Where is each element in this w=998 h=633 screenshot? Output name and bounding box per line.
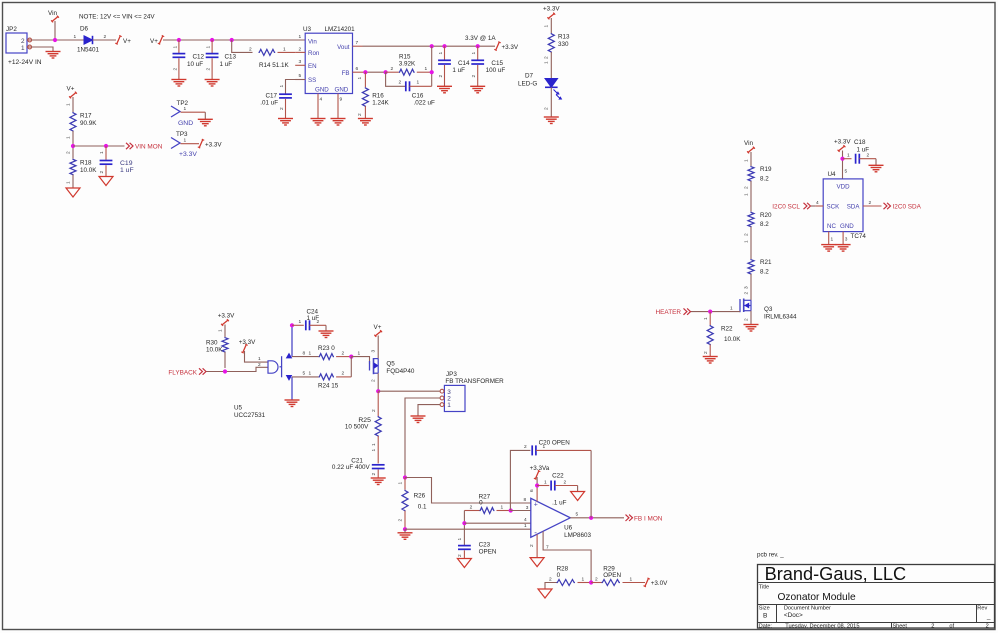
ground — [836, 244, 851, 246]
svg-text:2: 2 — [529, 544, 535, 547]
power flag +3.3V — [496, 42, 500, 50]
svg-text:R20: R20 — [760, 212, 772, 219]
svg-text:SCK: SCK — [827, 204, 841, 211]
wire — [405, 398, 440, 478]
svg-text:5: 5 — [303, 371, 306, 377]
svg-text:1: 1 — [283, 46, 286, 52]
svg-text:D6: D6 — [80, 26, 89, 33]
wire — [207, 367, 269, 371]
svg-text:1: 1 — [398, 482, 404, 485]
svg-text:2: 2 — [279, 107, 285, 110]
svg-text:0: 0 — [479, 500, 483, 507]
svg-text:TP2: TP2 — [177, 100, 189, 107]
svg-text:FB I MON: FB I MON — [634, 515, 663, 522]
svg-text:1: 1 — [743, 240, 749, 243]
svg-text:2: 2 — [457, 554, 463, 557]
resistor R20 — [748, 212, 754, 228]
wire — [405, 528, 531, 530]
svg-text:C23: C23 — [479, 541, 491, 548]
svg-text:1: 1 — [309, 371, 312, 377]
node — [210, 38, 214, 42]
ground — [331, 118, 346, 120]
wire — [32, 47, 54, 52]
net flag VIN MON — [126, 143, 129, 149]
node — [430, 70, 434, 74]
svg-text:0: 0 — [557, 572, 561, 579]
node — [708, 310, 712, 314]
svg-text:8: 8 — [524, 497, 527, 503]
svg-text:R23 0: R23 0 — [318, 345, 335, 352]
pin 6 — [536, 486, 538, 502]
svg-text:10 uF: 10 uF — [187, 61, 203, 68]
capacitor C24 — [292, 324, 304, 326]
svg-text:2: 2 — [931, 624, 934, 630]
svg-text:1: 1 — [358, 350, 361, 356]
svg-text:5: 5 — [299, 73, 302, 79]
svg-text:3: 3 — [299, 59, 302, 65]
svg-text:R18: R18 — [80, 160, 92, 167]
node Vin junction — [53, 38, 57, 42]
svg-text:1: 1 — [66, 181, 72, 184]
svg-text:1 uF: 1 uF — [307, 315, 320, 322]
IC U4 TC74 — [823, 179, 863, 232]
svg-text:2: 2 — [544, 56, 550, 59]
svg-text:C17: C17 — [266, 93, 278, 100]
svg-text:1 uF: 1 uF — [452, 67, 465, 74]
svg-text:1: 1 — [184, 106, 187, 112]
svg-text:2: 2 — [743, 292, 749, 295]
svg-text:2: 2 — [399, 80, 402, 86]
svg-text:1: 1 — [173, 46, 179, 49]
wire — [232, 40, 253, 52]
svg-text:I2C0 SDA: I2C0 SDA — [893, 203, 922, 210]
wire — [875, 159, 877, 166]
node — [840, 157, 844, 161]
svg-text:U3: U3 — [303, 26, 312, 33]
svg-text:1 uF: 1 uF — [120, 167, 134, 174]
node — [442, 44, 446, 48]
ground — [544, 116, 559, 118]
svg-text:pcb rev. _: pcb rev. _ — [757, 552, 784, 559]
svg-text:C12: C12 — [193, 54, 205, 61]
svg-text:Q3: Q3 — [764, 306, 773, 313]
testpoint TP2 — [171, 106, 180, 117]
wire — [72, 175, 74, 188]
net flag HEATER — [684, 308, 687, 314]
svg-text:1: 1 — [425, 66, 428, 72]
capacitor C21 — [372, 464, 385, 466]
power flag V+ — [117, 36, 121, 44]
svg-text:U5: U5 — [234, 405, 243, 412]
svg-text:1: 1 — [299, 34, 302, 40]
ground — [371, 477, 386, 479]
svg-text:Vout: Vout — [337, 44, 350, 51]
node — [104, 144, 108, 148]
wire — [224, 352, 226, 368]
svg-text:10 500V: 10 500V — [345, 424, 369, 431]
svg-text:2: 2 — [470, 504, 473, 510]
wire — [93, 39, 117, 41]
svg-text:2: 2 — [258, 362, 261, 368]
svg-text:B: B — [763, 613, 768, 620]
ground — [319, 330, 334, 332]
svg-text:1: 1 — [524, 523, 527, 529]
node — [535, 483, 539, 487]
svg-text:6: 6 — [356, 66, 359, 72]
svg-text:R13: R13 — [558, 34, 570, 41]
svg-text:8.2: 8.2 — [760, 175, 769, 182]
svg-text:4: 4 — [320, 97, 323, 103]
wire FB — [365, 71, 385, 73]
svg-text:100 uF: 100 uF — [486, 67, 506, 74]
svg-text:1: 1 — [703, 317, 709, 320]
svg-text:1: 1 — [457, 538, 463, 541]
svg-text:2: 2 — [99, 171, 105, 174]
svg-text:NC: NC — [827, 223, 836, 230]
svg-text:FB TRANSFORMER: FB TRANSFORMER — [445, 378, 504, 385]
net flag FB I MON — [626, 515, 629, 521]
svg-text:330: 330 — [558, 41, 569, 48]
wire — [418, 405, 440, 416]
svg-text:8.2: 8.2 — [760, 221, 769, 228]
svg-text:FB: FB — [342, 70, 350, 77]
svg-text:7: 7 — [356, 40, 359, 46]
svg-text:2: 2 — [524, 444, 527, 450]
svg-text:D7: D7 — [525, 73, 534, 80]
svg-text:2: 2 — [342, 371, 345, 377]
ground — [66, 188, 80, 197]
wire — [750, 227, 752, 259]
svg-text:+3.3V: +3.3V — [218, 313, 235, 320]
svg-text:UCC27531: UCC27531 — [234, 412, 266, 419]
svg-text:10.0K: 10.0K — [206, 347, 223, 354]
svg-text:1: 1 — [743, 159, 749, 162]
svg-text:+3.3V: +3.3V — [834, 139, 851, 146]
connector JP3 — [444, 385, 465, 411]
svg-text:8.2: 8.2 — [760, 268, 769, 275]
svg-text:.022 uF: .022 uF — [414, 100, 436, 107]
power flag +3.0V — [645, 578, 649, 586]
connector JP2 — [6, 33, 27, 53]
svg-text:LMP8603: LMP8603 — [564, 532, 591, 539]
svg-text:R30: R30 — [206, 339, 218, 346]
ground — [821, 244, 836, 246]
svg-text:V+: V+ — [123, 38, 131, 45]
svg-text:1: 1 — [471, 52, 477, 55]
ground — [457, 559, 471, 568]
node — [177, 38, 181, 42]
ground — [311, 118, 326, 120]
svg-text:2: 2 — [703, 351, 709, 354]
svg-text:2: 2 — [595, 576, 598, 582]
wire — [550, 18, 552, 33]
svg-text:LED-G: LED-G — [518, 81, 537, 88]
svg-text:R19: R19 — [760, 166, 772, 173]
resistor R25 — [377, 391, 379, 416]
svg-text:1 uF: 1 uF — [220, 61, 233, 68]
svg-text:GND: GND — [335, 87, 349, 94]
wire — [351, 357, 369, 364]
node — [403, 527, 407, 531]
wire — [54, 21, 56, 40]
svg-text:R14 51.1K: R14 51.1K — [259, 62, 290, 69]
capacitor C22 — [537, 485, 549, 487]
svg-text:1: 1 — [544, 479, 547, 485]
svg-text:2: 2 — [371, 473, 377, 476]
svg-text:OPEN: OPEN — [479, 549, 497, 556]
node — [363, 70, 367, 74]
svg-text:1.24K: 1.24K — [372, 100, 389, 107]
svg-text:_: _ — [986, 613, 991, 620]
svg-text:1: 1 — [831, 237, 834, 243]
svg-text:2: 2 — [371, 409, 377, 412]
capacitor C16 — [386, 72, 406, 86]
node — [349, 355, 353, 359]
wire — [245, 351, 269, 362]
LED D7 — [545, 79, 558, 88]
svg-text:Date:: Date: — [759, 624, 773, 630]
wire — [377, 336, 379, 359]
svg-text:Ozonator Module: Ozonator Module — [778, 592, 856, 603]
svg-text:GND: GND — [315, 87, 329, 94]
svg-text:1: 1 — [371, 449, 377, 452]
svg-text:5: 5 — [576, 512, 579, 518]
svg-text:3: 3 — [371, 350, 377, 353]
diode D6 — [84, 36, 93, 44]
pin 7 — [543, 531, 591, 582]
svg-text:1: 1 — [184, 138, 187, 144]
wire — [463, 511, 465, 546]
svg-text:GND: GND — [178, 120, 193, 127]
svg-text:1N5401: 1N5401 — [77, 47, 100, 54]
ground — [358, 118, 373, 120]
svg-text:Q5: Q5 — [386, 360, 395, 367]
svg-text:SS: SS — [308, 77, 316, 84]
svg-text:TC74: TC74 — [851, 233, 867, 240]
op-amp U6 LMP8603 — [531, 498, 571, 537]
wire — [431, 46, 433, 86]
node — [223, 369, 227, 373]
svg-text:I2C0 SCL: I2C0 SCL — [772, 203, 800, 210]
svg-text:+12-24V IN: +12-24V IN — [8, 59, 42, 66]
wire — [842, 151, 844, 179]
ground — [46, 51, 61, 53]
svg-text:LMZ14201: LMZ14201 — [325, 26, 356, 33]
svg-text:VDD: VDD — [837, 184, 851, 191]
ground — [171, 79, 186, 81]
ground — [703, 356, 718, 358]
wire — [750, 311, 752, 325]
svg-text:.1 uF: .1 uF — [552, 499, 567, 506]
svg-text:JP3: JP3 — [446, 371, 457, 378]
testpoint TP3 — [171, 138, 180, 149]
svg-text:Ron: Ron — [308, 50, 320, 57]
svg-text:3.92K: 3.92K — [399, 60, 416, 67]
svg-text:+3.3V: +3.3V — [205, 141, 222, 148]
wire V+ bus — [163, 39, 305, 41]
svg-text:2: 2 — [66, 151, 72, 154]
svg-text:C13: C13 — [225, 54, 237, 61]
wire — [377, 373, 379, 391]
ground — [411, 415, 426, 417]
svg-text:1: 1 — [438, 52, 444, 55]
svg-text:+3.3V: +3.3V — [502, 44, 519, 51]
wire — [224, 325, 226, 338]
svg-text:2: 2 — [104, 34, 107, 40]
svg-text:2: 2 — [342, 350, 345, 356]
svg-text:2: 2 — [869, 200, 872, 206]
wire — [550, 52, 552, 79]
wire — [750, 152, 752, 166]
wire — [72, 131, 74, 159]
svg-text:C19: C19 — [120, 160, 133, 167]
svg-text:1: 1 — [309, 350, 312, 356]
svg-text:1: 1 — [357, 77, 363, 80]
ground — [530, 558, 544, 567]
svg-text:1: 1 — [299, 319, 302, 325]
svg-text:2: 2 — [438, 75, 444, 78]
svg-text:FLYBACK: FLYBACK — [168, 369, 197, 376]
svg-text:2: 2 — [743, 233, 749, 236]
svg-text:1: 1 — [847, 153, 850, 159]
ground — [571, 492, 585, 501]
svg-text:1: 1 — [730, 305, 733, 311]
svg-text:5: 5 — [845, 169, 848, 175]
svg-text:1: 1 — [630, 576, 633, 582]
svg-text:3.3V @ 1A: 3.3V @ 1A — [465, 35, 496, 42]
svg-text:1: 1 — [258, 356, 261, 362]
ground — [285, 399, 300, 401]
svg-text:9: 9 — [340, 97, 343, 103]
svg-text:3: 3 — [743, 286, 749, 289]
wire — [464, 522, 530, 524]
ground — [99, 177, 113, 186]
ground — [470, 85, 485, 87]
svg-text:SDA: SDA — [847, 204, 861, 211]
svg-text:1: 1 — [417, 80, 420, 86]
svg-text:TP3: TP3 — [176, 131, 188, 138]
svg-text:Vin: Vin — [744, 140, 753, 147]
svg-text:U6: U6 — [564, 524, 573, 531]
IC U3 LMZ14201 — [305, 33, 352, 93]
wire — [32, 39, 84, 41]
svg-text:1: 1 — [66, 136, 72, 139]
svg-text:1: 1 — [582, 576, 585, 582]
wire — [550, 87, 552, 117]
svg-text:2: 2 — [743, 186, 749, 189]
svg-text:2: 2 — [986, 624, 989, 630]
capacitor C12 — [178, 40, 180, 53]
svg-text:3: 3 — [526, 505, 529, 511]
transistor Q3 IRLML6344 — [739, 299, 741, 312]
svg-text:EN: EN — [308, 63, 317, 70]
svg-text:1: 1 — [544, 25, 550, 28]
svg-text:1 uF: 1 uF — [857, 147, 870, 154]
svg-text:2: 2 — [391, 66, 394, 72]
capacitor C13 — [211, 40, 213, 53]
wire VIN MON — [73, 145, 125, 147]
svg-text:R22: R22 — [721, 326, 733, 333]
svg-text:JP2: JP2 — [6, 26, 17, 33]
svg-text:6: 6 — [529, 489, 535, 492]
IC U5 UCC27531 gate — [268, 361, 278, 373]
wire — [750, 181, 752, 212]
transistor Q5 FQD4P40 — [369, 361, 371, 371]
svg-text:0.22 uF 400V: 0.22 uF 400V — [332, 464, 371, 471]
svg-text:Sheet: Sheet — [893, 624, 908, 630]
svg-text:Title: Title — [759, 585, 769, 591]
svg-text:1: 1 — [218, 329, 224, 332]
svg-text:<Doc>: <Doc> — [784, 612, 803, 619]
capacitor C18 — [843, 158, 852, 160]
node — [403, 475, 407, 479]
capacitor C17 — [286, 80, 306, 94]
svg-text:C18: C18 — [854, 139, 866, 146]
svg-text:IRLML6344: IRLML6344 — [764, 313, 797, 320]
svg-text:FQD4P40: FQD4P40 — [386, 368, 414, 375]
svg-text:of: of — [949, 624, 954, 630]
ground — [278, 118, 293, 120]
node — [589, 580, 593, 584]
svg-text:7: 7 — [546, 545, 549, 551]
svg-text:Tuesday, December 08, 2015: Tuesday, December 08, 2015 — [785, 624, 859, 630]
svg-text:2: 2 — [471, 75, 477, 78]
wire — [750, 274, 752, 300]
node — [290, 323, 294, 327]
svg-text:1: 1 — [206, 46, 212, 49]
ground — [869, 164, 884, 166]
svg-text:V+: V+ — [67, 86, 75, 93]
svg-text:1: 1 — [501, 504, 504, 510]
capacitor C23 — [458, 545, 471, 547]
node — [589, 516, 593, 520]
svg-text:1: 1 — [743, 193, 749, 196]
net flag I2C0 SDA — [884, 203, 887, 209]
svg-text:R24 15: R24 15 — [318, 383, 339, 390]
svg-text:2: 2 — [299, 46, 302, 52]
title block frame — [758, 565, 995, 629]
svg-text:V+: V+ — [374, 324, 382, 331]
wire — [536, 477, 538, 486]
svg-text:3: 3 — [845, 237, 848, 243]
ground — [744, 324, 759, 326]
svg-text:10.0K: 10.0K — [724, 336, 741, 343]
svg-text:Vin: Vin — [308, 38, 317, 45]
svg-text:R21: R21 — [760, 259, 772, 266]
svg-text:1: 1 — [543, 444, 546, 450]
svg-text:2: 2 — [206, 68, 212, 71]
svg-text:Size: Size — [759, 606, 770, 612]
wire — [590, 450, 592, 517]
wire — [72, 97, 74, 112]
node — [509, 508, 513, 512]
svg-text:8: 8 — [303, 350, 306, 356]
resistor R18 — [70, 159, 76, 176]
svg-text:1: 1 — [447, 402, 451, 409]
svg-text:C22: C22 — [552, 472, 564, 479]
svg-text:R26: R26 — [414, 492, 426, 499]
wire HEATER — [691, 311, 741, 313]
capacitor C14 — [444, 46, 446, 59]
node — [230, 38, 234, 42]
svg-text:OPEN: OPEN — [603, 572, 621, 579]
ground — [538, 589, 552, 598]
svg-text:1: 1 — [21, 45, 25, 52]
svg-text:.01 uF: .01 uF — [260, 100, 278, 107]
svg-text:NOTE: 12V <= VIN <= 24V: NOTE: 12V <= VIN <= 24V — [79, 14, 155, 21]
svg-text:1: 1 — [74, 34, 77, 40]
svg-text:1: 1 — [544, 61, 550, 64]
